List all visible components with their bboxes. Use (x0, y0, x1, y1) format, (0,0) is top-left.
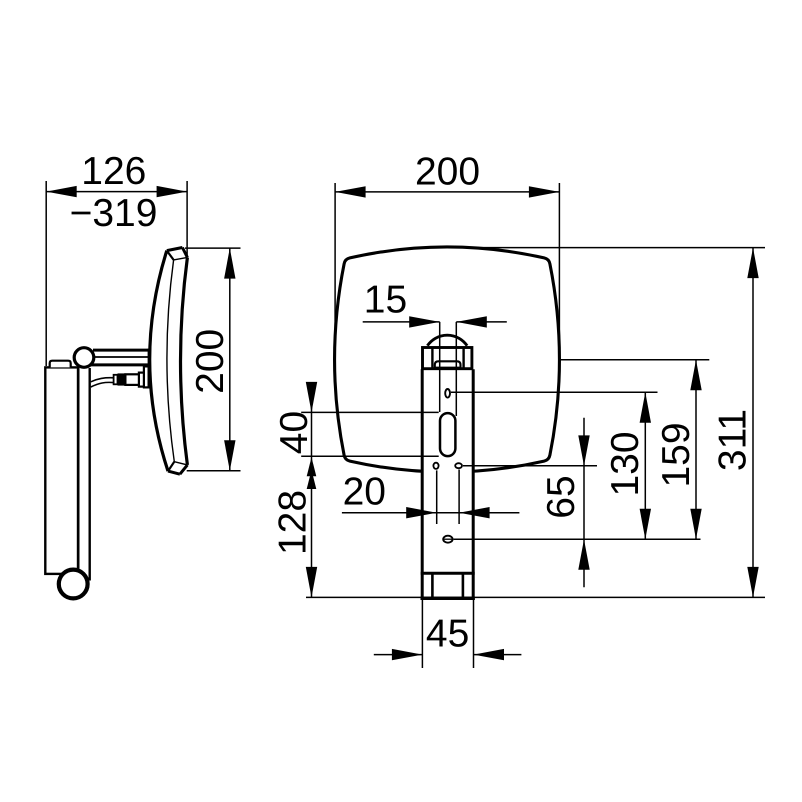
mirror bracket (side view) (144, 366, 149, 387)
leader bottom oval (454, 538, 701, 540)
wall baseline (306, 596, 765, 598)
dim 20 leaders (436, 470, 438, 524)
plug step (114, 375, 118, 385)
dim 40 leaders (301, 411, 439, 413)
foot inner lines (431, 573, 434, 598)
svg-text:200: 200 (189, 329, 232, 394)
mirror profile bottom edge quad (174, 462, 187, 465)
dim 15 extension lines (439, 322, 441, 412)
head block (423, 348, 472, 369)
dim 130 line (644, 392, 646, 539)
top screw hole (445, 389, 450, 398)
swivel arm (side view) (93, 349, 149, 352)
plug black part (118, 373, 126, 385)
column right edge (472, 369, 475, 598)
dim 128 top arrow (307, 470, 317, 489)
svg-text:65: 65 (540, 475, 583, 518)
dim 20 line (342, 512, 520, 514)
arm post (side view) (77, 368, 79, 569)
svg-text:40: 40 (273, 411, 316, 454)
svg-text:200: 200 (415, 151, 480, 194)
dim 311 line (752, 248, 754, 598)
wall bar (side view) (45, 367, 78, 574)
foot top edge (421, 572, 475, 575)
bottom ball end (59, 570, 88, 599)
head window (435, 361, 461, 369)
small hole right (455, 463, 462, 468)
dim 200 left line (229, 248, 231, 471)
dome hook top (427, 335, 467, 346)
svg-text:128: 128 (272, 490, 315, 555)
plug end cap (139, 373, 144, 387)
dim 40 top arrow (306, 382, 317, 413)
dim 45 line segments (374, 654, 423, 656)
leader mirror centerline (559, 359, 710, 361)
svg-text:126: 126 (81, 150, 146, 193)
foot bottom edge (421, 597, 475, 600)
column left edge (421, 369, 424, 598)
bottom oval hole (443, 536, 452, 543)
dim 40/128 vertical line (311, 384, 313, 597)
dim 200 top extension lines (334, 183, 336, 350)
mirror squircle front view (335, 247, 560, 472)
vertical slot (440, 413, 455, 456)
svg-text:45: 45 (426, 613, 469, 656)
svg-text:20: 20 (343, 471, 386, 514)
dim 126/-319 extension lines (45, 181, 47, 366)
leader right hole (463, 465, 597, 467)
dim 65 line (583, 418, 585, 588)
dim 45 extension lines (421, 598, 423, 668)
small hole left (433, 463, 438, 469)
dim 15 line segments (363, 321, 440, 323)
dim 128 bottom arrow (306, 567, 317, 598)
head inner lines (431, 347, 433, 369)
svg-text:311: 311 (712, 409, 755, 471)
mirror front curved edge (150, 251, 168, 472)
cable wires (91, 378, 114, 382)
dim 200 top line (335, 191, 559, 193)
pivot ball joint (74, 348, 94, 368)
svg-text:159: 159 (655, 422, 698, 487)
plug body (125, 374, 138, 385)
dim 126 line (46, 191, 187, 193)
arm post lower segment (88, 568, 90, 581)
mirror back curved edge (181, 257, 188, 465)
wall bar top tab (50, 361, 71, 368)
head window dark bar (435, 367, 461, 369)
leader top hole (451, 391, 658, 393)
svg-text:−319: −319 (70, 192, 158, 235)
svg-text:130: 130 (604, 431, 647, 496)
dim 200 left leaders (185, 247, 241, 249)
dim 159 line (695, 360, 697, 540)
column hidden cover (422, 368, 475, 598)
mirror profile top edge quad (167, 248, 183, 251)
dim 40 bottom arrow (307, 457, 317, 476)
mirror glass middle line (167, 260, 174, 462)
svg-text:15: 15 (364, 278, 407, 321)
leader mirror top (450, 247, 765, 249)
